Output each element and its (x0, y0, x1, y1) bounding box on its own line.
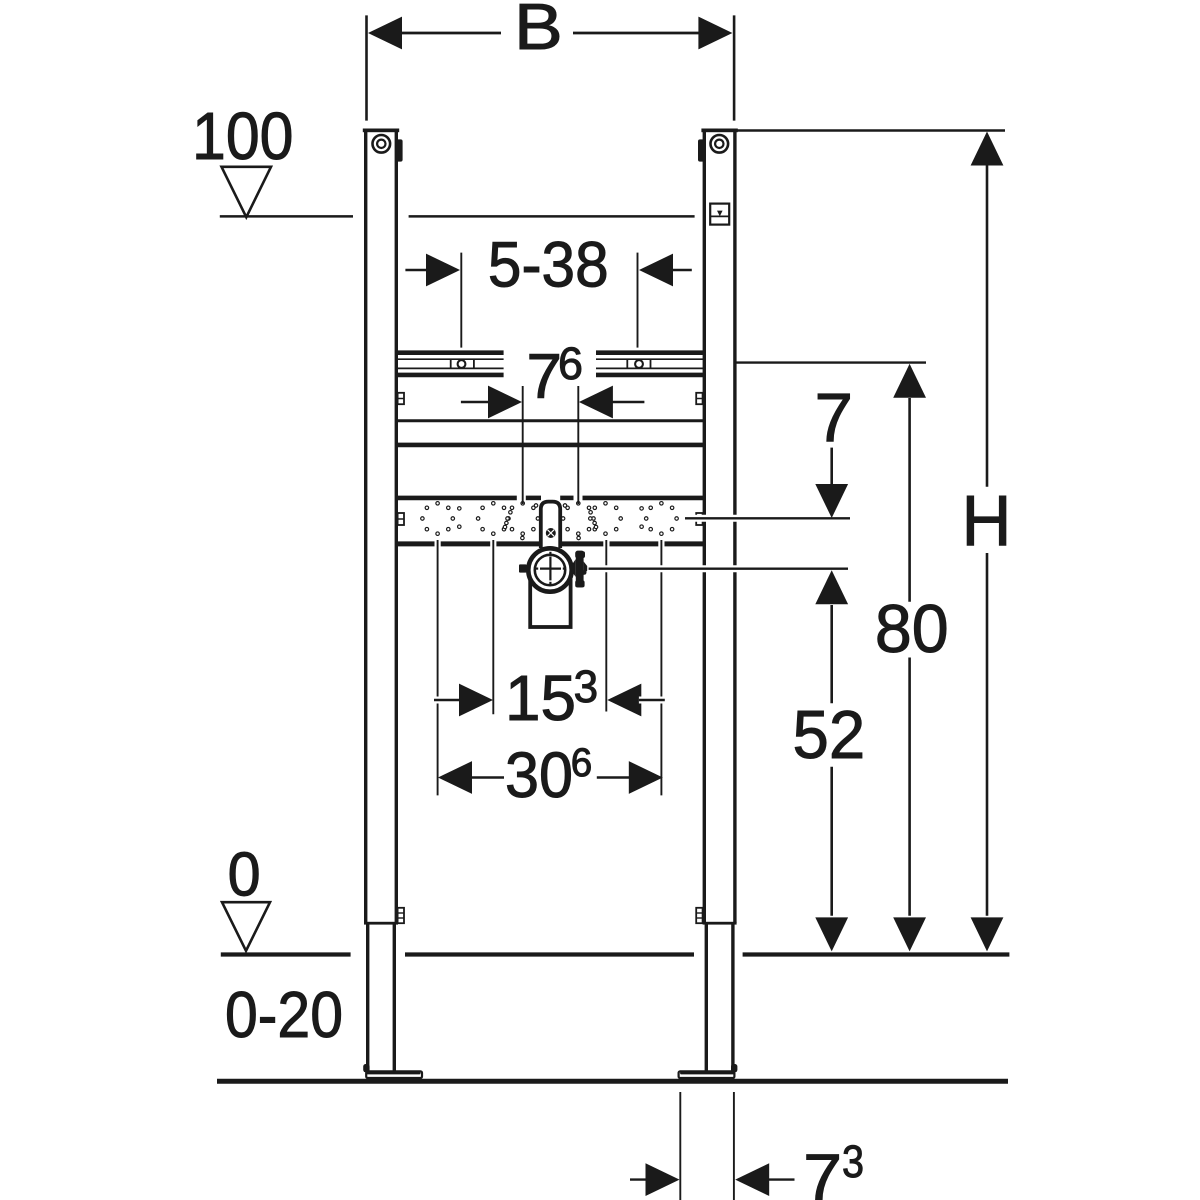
dimension 5-38 arrows (405, 254, 691, 287)
right leg plate clip (696, 513, 702, 525)
svg-text:6: 6 (571, 741, 593, 785)
right upper mounting rail (596, 353, 703, 375)
drain pipe clamp circle (528, 548, 571, 591)
left leg tube joint (364, 922, 398, 925)
left leg rail clip (398, 393, 404, 404)
right leg lower clip (696, 908, 702, 923)
svg-text:100: 100 (192, 99, 294, 174)
water level vial box on right leg (710, 204, 729, 225)
dimension 80 leader (736, 361, 927, 363)
dimension 7_3 label (803, 1136, 864, 1200)
svg-text:7: 7 (527, 342, 563, 412)
svg-text:B: B (514, 0, 563, 63)
raw floor line (217, 1079, 1008, 1084)
dimension 7_3 arrows (630, 1163, 795, 1196)
clamp screw fitting right of drain circle (571, 551, 587, 588)
left frame leg (upright rail) (363, 129, 403, 924)
right foot knob (731, 1064, 737, 1072)
middle crossbar profile (398, 421, 703, 445)
dimension 7_6 arrows (461, 386, 645, 419)
perforation holes pattern (421, 502, 679, 540)
svg-text:3: 3 (842, 1136, 864, 1187)
dimension 7 leader line with halo (685, 515, 850, 522)
svg-text:3: 3 (574, 661, 599, 712)
svg-text:0: 0 (228, 840, 261, 909)
meter level 100 triangle (222, 167, 272, 217)
perforated mounting plate bottom edge (398, 541, 703, 546)
clamp tab left of drain circle (519, 564, 527, 572)
svg-text:H: H (962, 482, 1012, 561)
dimension 7_6 extension lines (523, 386, 579, 504)
drain standpipe through plate (541, 502, 560, 548)
drain axis leader line with halo (589, 565, 848, 572)
dimension 30_6 label (505, 739, 592, 811)
perforated mounting plate top edge (398, 496, 703, 501)
left leg lower tube (366, 924, 396, 1072)
left foot knob (363, 1064, 369, 1072)
left leg lower clip (398, 908, 404, 923)
plate hole position lines (438, 540, 662, 795)
dimension 80 line and arrows (893, 364, 926, 952)
svg-text:7: 7 (815, 379, 854, 456)
svg-text:6: 6 (558, 338, 583, 389)
finished floor 0 triangle (222, 902, 270, 951)
svg-text:30: 30 (505, 739, 573, 811)
svg-text:0-20: 0-20 (225, 978, 343, 1051)
meter level 100 line (220, 215, 695, 218)
dimension 7_3 extension lines (680, 1092, 734, 1200)
left upper mounting rail (398, 353, 504, 375)
svg-text:7: 7 (803, 1140, 842, 1200)
svg-text:5-38: 5-38 (488, 228, 609, 300)
dimension 15_3 arrows with halo leaders (434, 684, 665, 717)
dimension 5-38 extension lines (461, 253, 637, 348)
dimension 7_6 label (527, 338, 584, 412)
dimension 52 line and arrows (815, 570, 848, 951)
dimension 7 line and arrow (815, 448, 848, 518)
svg-text:15: 15 (505, 662, 576, 734)
right frame leg (upright rail) (698, 129, 738, 924)
right foot plate (679, 1071, 735, 1078)
left foot plate (366, 1071, 422, 1078)
dimension H line and arrows (971, 132, 1004, 952)
drain outlet box (530, 581, 570, 627)
dimension B extension lines (367, 15, 735, 120)
dimension 30_6 arrows (438, 761, 663, 794)
svg-text:80: 80 (875, 591, 949, 667)
dimension H top leader (737, 129, 1005, 132)
dimension 15_3 label (505, 661, 598, 734)
right leg rail clip (696, 393, 702, 404)
left leg plate clip (398, 513, 404, 525)
right leg lower tube (705, 924, 735, 1072)
svg-text:52: 52 (793, 697, 866, 773)
right leg tube joint (703, 922, 737, 925)
finished floor 0 line (221, 952, 1010, 956)
dimension B arrows and line (368, 17, 732, 50)
